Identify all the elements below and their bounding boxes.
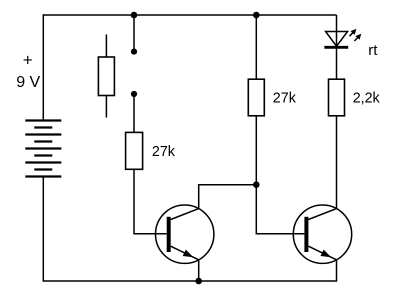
wire LED to R4 [336,47,338,80]
wire R2 to Q1 base [134,169,167,234]
wire bottom rail [43,280,337,282]
resistor R1 (spare, unconnected) [98,35,114,118]
svg-text:+: + [23,51,33,70]
svg-text:rt: rt [368,42,378,59]
wire switch lower lead to R2 [133,94,135,135]
transistor Q1 [156,205,214,263]
node A junction dot [253,181,260,188]
wire switch upper lead [133,15,135,52]
svg-text:2,2k: 2,2k [353,91,381,107]
switch S1 open contact upper [131,49,137,55]
junction dot top rail / middle column [253,12,260,19]
svg-text:27k: 27k [273,91,297,107]
resistor R3 27k [248,79,264,116]
resistor R2 27k [126,132,143,169]
resistor R4 2,2k [329,79,345,116]
wire Q1 emitter to bottom rail [198,260,200,281]
wire middle column (top rail through R3 to node A) [255,15,257,185]
wire R4 to Q2 collector [336,116,338,209]
wire battery top lead [42,14,44,120]
wire node A to Q2 base [256,185,304,234]
svg-text:9 V: 9 V [16,74,40,91]
wire top rail [43,14,336,16]
wire Q2 emitter to bottom rail [336,260,338,282]
wire Q1 collector to node A [199,185,257,209]
wire battery bottom lead [42,177,44,282]
junction dot top rail / switch column [131,12,138,19]
battery B1 9V [25,121,61,177]
LED D1 [324,29,361,47]
transistor Q2 [293,205,351,263]
svg-text:27k: 27k [152,144,176,160]
switch S1 open contact lower [131,91,137,97]
junction dot Q1 emitter / bottom rail [195,278,202,285]
wire right column top (corner to LED) [336,15,338,47]
